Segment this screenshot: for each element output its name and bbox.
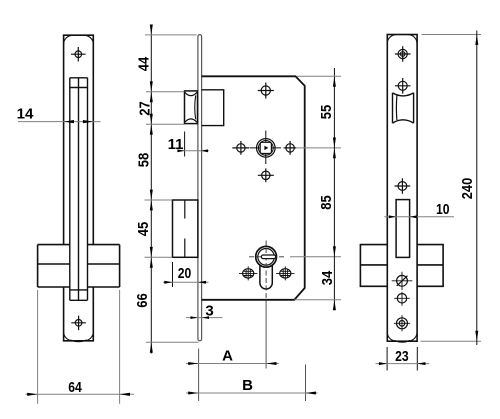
- svg-text:44: 44: [136, 56, 153, 71]
- dim 64: [26, 290, 135, 404]
- svg-text:11: 11: [168, 136, 184, 153]
- svg-text:10: 10: [436, 201, 450, 218]
- right third screw hole: [395, 178, 411, 194]
- svg-text:3: 3: [205, 303, 213, 320]
- svg-text:45: 45: [135, 222, 152, 237]
- latch body behind plate: [202, 90, 224, 126]
- dim 3: [186, 303, 223, 320]
- ext line latch bottom: [146, 123, 184, 125]
- svg-text:23: 23: [395, 348, 409, 365]
- svg-text:14: 14: [17, 106, 34, 123]
- dim 23: [376, 347, 430, 371]
- block hole with slash: [392, 272, 413, 290]
- lock case outline: [202, 76, 305, 299]
- svg-text:20: 20: [178, 265, 192, 282]
- ext line bolt top: [145, 199, 173, 201]
- hole below follower: [258, 168, 274, 182]
- ext line plate top: [145, 34, 197, 36]
- dim A: [186, 348, 279, 402]
- hole left of follower: [232, 141, 249, 155]
- svg-text:34: 34: [319, 270, 336, 285]
- cylinder centerline extension down to A dim: [265, 301, 267, 369]
- latch cutout (front): [393, 93, 414, 123]
- left top screw hole: [71, 47, 86, 62]
- dim B: [186, 365, 318, 402]
- deadbolt (middle view): [173, 200, 198, 257]
- svg-text:240: 240: [459, 178, 476, 200]
- dim 11: [168, 132, 209, 157]
- follower (square spindle hub): [250, 131, 281, 165]
- cylinder keyway: [261, 255, 275, 259]
- right top screw hole (double): [395, 46, 411, 62]
- left plate bottom shallow arc: [71, 340, 87, 342]
- block hole 2: [394, 292, 410, 306]
- threaded hole left of cylinder: [239, 266, 257, 280]
- threaded hole right of cylinder: [276, 266, 294, 280]
- left slot channel: [70, 78, 88, 300]
- deadbolt cutout (front): [396, 200, 410, 258]
- right view block: [360, 245, 443, 287]
- svg-text:85: 85: [318, 195, 335, 210]
- right plate bottom shallow arc: [394, 340, 410, 342]
- svg-text:64: 64: [68, 379, 82, 396]
- ext line bolt bottom: [145, 256, 173, 258]
- dim 20: [163, 262, 209, 287]
- euro cylinder: [256, 246, 277, 289]
- follower centerline extension to dim: [283, 147, 341, 149]
- right dimension chain (55/85/34): [333, 68, 335, 310]
- dim 14: [17, 106, 101, 124]
- svg-text:66: 66: [134, 293, 151, 308]
- left view block: [38, 245, 120, 287]
- svg-text:55: 55: [318, 105, 335, 120]
- right plate corner arcs: [387, 35, 417, 341]
- cylinder center extension right to dim: [290, 256, 341, 258]
- svg-text:A: A: [222, 348, 233, 365]
- svg-text:B: B: [242, 377, 253, 394]
- faceplate strip (edge view): [198, 35, 202, 341]
- left plate outline: [64, 35, 94, 341]
- svg-text:58: 58: [136, 153, 153, 168]
- left plate corner arcs: [64, 35, 94, 340]
- left dimension chain (44/27/58/45/66): [150, 27, 152, 354]
- latch head: [185, 91, 198, 124]
- left bottom screw hole: [71, 316, 86, 331]
- ext line strip bottom: [146, 341, 199, 343]
- ext line latch top: [146, 91, 184, 93]
- right second screw hole: [395, 78, 411, 94]
- right plate outline: [387, 35, 417, 342]
- top hole (middle view): [258, 83, 274, 99]
- block hole 3 (double): [394, 315, 410, 331]
- hole right of follower: [284, 141, 296, 155]
- svg-text:27: 27: [137, 101, 154, 116]
- dim 240: [421, 31, 482, 346]
- cylinder centerlines: [249, 241, 285, 302]
- dim 10: [384, 201, 454, 218]
